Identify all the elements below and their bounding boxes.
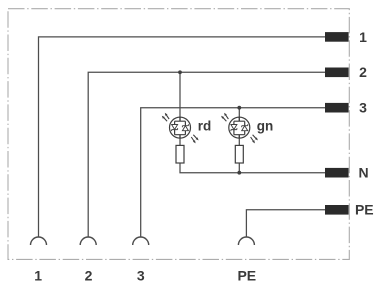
- svg-text:PE: PE: [355, 202, 374, 218]
- wire 2 (terminal 2 to pin 2): [88, 72, 326, 237]
- wire rd branch (from wire 2 down to LED rd): [179, 72, 181, 121]
- junction dot on wire 2: [178, 70, 182, 74]
- junction dot on wire N: [237, 171, 241, 175]
- pin 3 socket contact: [133, 237, 149, 245]
- svg-text:1: 1: [359, 29, 367, 45]
- svg-text:rd: rd: [198, 118, 212, 133]
- terminal N (black contact bar): [325, 168, 349, 178]
- pin PE socket contact: [238, 237, 254, 245]
- svg-text:3: 3: [137, 268, 145, 284]
- device outline border (dash-dot): [8, 9, 349, 260]
- wire rd LED to resistor R1: [179, 135, 181, 146]
- pin 2 socket contact: [80, 237, 96, 245]
- svg-text:N: N: [358, 165, 368, 181]
- terminal PE (black contact bar): [325, 205, 349, 215]
- wire gn LED to resistor R2: [238, 135, 240, 146]
- resistor R1 (below LED rd): [176, 145, 184, 163]
- terminal 1 (black contact bar): [325, 32, 349, 42]
- svg-text:PE: PE: [237, 268, 256, 284]
- wire 3 (terminal 3 to pin 3): [141, 108, 326, 238]
- svg-text:gn: gn: [257, 118, 274, 133]
- terminal 2 (black contact bar): [325, 68, 349, 78]
- wire PE (terminal PE to pin PE): [246, 210, 325, 237]
- svg-text:3: 3: [359, 100, 367, 116]
- LED gn (green indicator, antiparallel diodes): [221, 113, 258, 144]
- svg-text:2: 2: [359, 64, 367, 80]
- LED rd (red indicator, antiparallel diodes): [162, 113, 199, 144]
- terminal 3 (black contact bar): [325, 103, 349, 113]
- wire N (LED/resistor common to terminal N): [180, 163, 326, 173]
- wire resistor R2 to wire N: [238, 163, 240, 173]
- pin 1 socket contact: [31, 237, 47, 245]
- wire 1 (terminal 1 to pin 1): [39, 37, 327, 237]
- wire gn branch (from wire 3 down to LED gn): [238, 108, 240, 122]
- resistor R2 (below LED gn): [235, 145, 243, 163]
- svg-text:1: 1: [34, 268, 42, 284]
- svg-text:2: 2: [85, 268, 93, 284]
- junction dot on wire 3: [237, 106, 241, 110]
